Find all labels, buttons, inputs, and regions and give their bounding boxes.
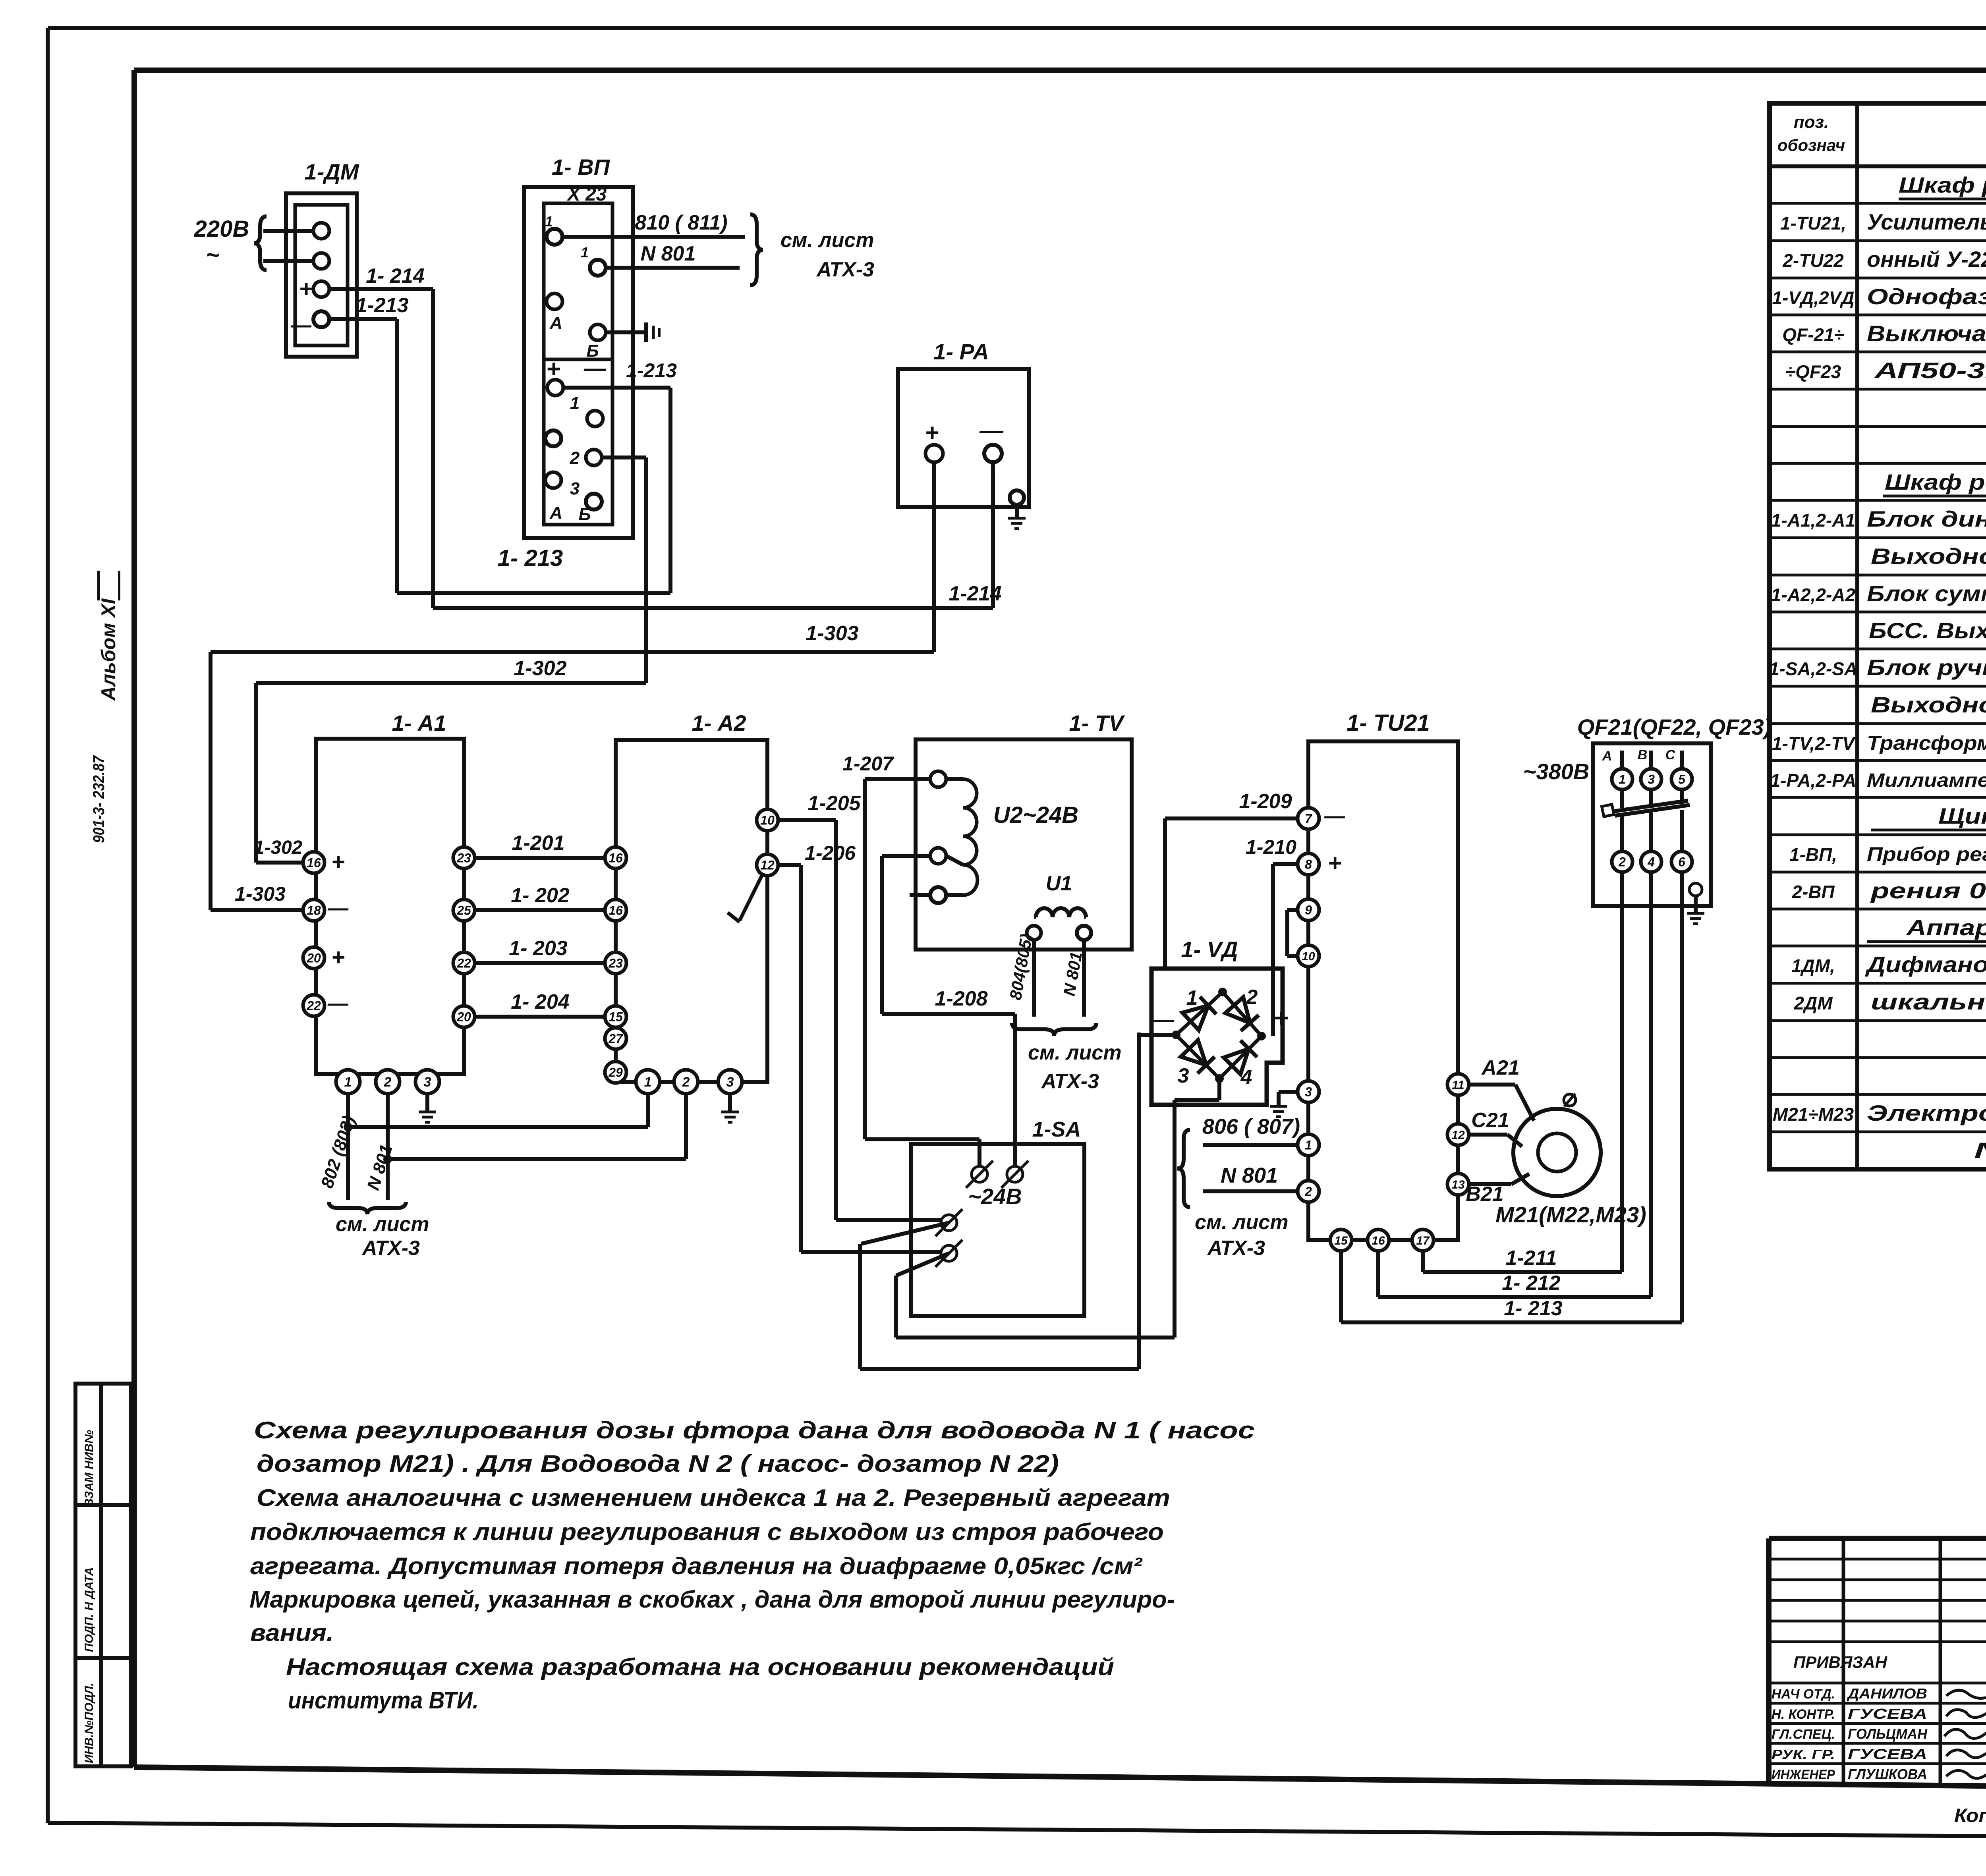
svg-text:2-ВП: 2-ВП [1791,882,1835,902]
svg-text:—: — [1151,1007,1175,1032]
svg-text:4: 4 [1647,855,1655,869]
svg-text:23: 23 [608,956,623,971]
svg-text:—: — [327,897,349,920]
svg-text:ПОДП. Н ДАТА: ПОДП. Н ДАТА [83,1567,96,1652]
svg-text:1- РА: 1- РА [933,339,989,364]
svg-text:1- 212: 1- 212 [1502,1272,1561,1295]
svg-text:Б: Б [578,505,591,524]
svg-text:ГУСЕВА: ГУСЕВА [1848,1746,1927,1762]
svg-text:1-А1,2-А1: 1-А1,2-А1 [1771,510,1855,531]
svg-text:3: 3 [1305,1085,1312,1099]
svg-text:1- ВП: 1- ВП [552,154,610,179]
svg-text:Н. КОНТР.: Н. КОНТР. [1772,1707,1835,1722]
svg-text:поз.: поз. [1794,112,1829,132]
svg-text:16: 16 [1372,1234,1385,1247]
svg-text:1-201: 1-201 [512,832,565,855]
svg-text:÷QF23: ÷QF23 [1785,361,1841,382]
svg-text:+: + [299,276,313,302]
svg-text:В: В [1638,747,1648,762]
svg-text:25: 25 [456,903,471,918]
svg-text:Блок динамической связи БДЕ: Блок динамической связи БДЕ [1867,506,1986,531]
svg-text:20: 20 [306,951,321,965]
svg-text:ПРИВЯЗАН: ПРИВЯЗАН [1793,1653,1888,1671]
svg-text:1- 202: 1- 202 [511,884,570,907]
svg-text:+: + [1327,850,1341,876]
svg-text:1-303: 1-303 [235,883,286,905]
svg-text:Шкаф регулирования фтора N1: Шкаф регулирования фтора N1 [1899,172,1986,197]
svg-text:онный У-22М: онный У-22М [1867,247,1986,272]
svg-text:ГЛ.СПЕЦ.: ГЛ.СПЕЦ. [1772,1727,1835,1742]
svg-text:1- 213: 1- 213 [1504,1297,1563,1320]
svg-text:рения 0-5мА РП- 160-09: рения 0-5мА РП- 160-09 [1870,878,1986,903]
svg-text:806 ( 807): 806 ( 807) [1202,1115,1300,1139]
svg-text:Аппаратура по месту: Аппаратура по месту [1906,915,1986,940]
svg-text:1-210: 1-210 [1246,836,1296,858]
svg-text:1: 1 [545,213,553,230]
svg-text:АТХ-3: АТХ-3 [1207,1237,1265,1260]
svg-text:1- ТV: 1- ТV [1069,710,1126,735]
svg-text:7: 7 [1305,812,1313,826]
svg-text:АП50-3МГ Iрн=6,4А ~380В: АП50-3МГ Iрн=6,4А ~380В [1874,358,1986,383]
svg-text:см. лист: см. лист [780,229,874,252]
svg-text:1- А1: 1- А1 [392,710,446,735]
svg-text:А: А [549,313,562,333]
svg-text:29: 29 [608,1065,623,1080]
svg-text:15: 15 [1334,1234,1348,1247]
svg-text:Альбом XI: Альбом XI [97,598,120,701]
svg-text:1-211: 1-211 [1505,1247,1557,1270]
svg-text:3: 3 [424,1075,431,1090]
svg-text:12: 12 [760,858,775,872]
svg-text:обознач: обознач [1777,136,1845,154]
svg-text:27: 27 [608,1032,624,1046]
svg-text:1-213: 1-213 [626,359,677,382]
svg-text:Схема аналогична с измен: Схема аналогична с изменением индекса 1 … [257,1484,1170,1511]
svg-text:1: 1 [644,1075,652,1090]
svg-text:1: 1 [1619,772,1626,787]
svg-text:вания.: вания. [250,1619,334,1646]
svg-text:12: 12 [1451,1129,1465,1142]
svg-text:АТХ-3: АТХ-3 [1041,1070,1099,1093]
svg-text:1- 203: 1- 203 [509,937,568,960]
svg-text:901-3- 232.87: 901-3- 232.87 [90,755,108,843]
svg-text:1: 1 [570,394,580,413]
svg-text:16: 16 [609,903,623,918]
svg-text:N=2,2кВт ~380В: N=2,2кВт ~380В [1974,1138,1986,1163]
svg-text:Электродвигатель 4А9024: Электродвигатель 4А9024 [1867,1100,1986,1125]
svg-text:1-ТU21,: 1-ТU21, [1780,213,1846,234]
svg-text:1-213: 1-213 [356,294,409,317]
svg-text:Копировал: Антипова: Копировал: Антипова [1954,1805,1986,1826]
svg-text:810 ( 811): 810 ( 811) [635,211,727,234]
svg-text:НАЧ ОТД.: НАЧ ОТД. [1772,1687,1835,1702]
svg-text:~380В: ~380В [1523,759,1590,784]
svg-text:23: 23 [456,851,471,865]
svg-text:2ДМ: 2ДМ [1793,993,1833,1013]
svg-text:1-206: 1-206 [805,842,856,864]
svg-text:+: + [925,419,939,446]
svg-text:1: 1 [1305,1138,1312,1152]
svg-text:U1: U1 [1046,872,1072,895]
svg-text:22: 22 [306,999,321,1013]
svg-text:Маркировка цепей, указанная: Маркировка цепей, указанная в скобках , … [249,1586,1175,1613]
svg-text:—: — [583,355,607,380]
svg-text:1-205: 1-205 [808,792,861,815]
svg-text:Выходной сигнал 0-5мА ~220В: Выходной сигнал 0-5мА ~220В [1871,544,1986,569]
svg-text:6: 6 [1678,855,1685,869]
svg-text:1-ДМ: 1-ДМ [305,159,359,184]
svg-text:1- 204: 1- 204 [511,990,570,1013]
svg-text:А21: А21 [1481,1056,1519,1079]
svg-text:2: 2 [1304,1185,1312,1199]
svg-text:QF-21÷: QF-21÷ [1782,324,1844,345]
svg-text:ГЛУШКОВА: ГЛУШКОВА [1848,1766,1927,1782]
svg-text:3: 3 [726,1075,734,1090]
svg-text:16: 16 [609,851,623,865]
svg-text:1: 1 [344,1075,352,1090]
svg-text:1- 214: 1- 214 [366,264,425,288]
svg-text:С21: С21 [1471,1109,1509,1132]
svg-text:2-ТU22: 2-ТU22 [1782,250,1844,271]
svg-text:—: — [327,992,349,1015]
svg-text:АТХ-3: АТХ-3 [361,1237,420,1260]
svg-text:М21(М22,М23): М21(М22,М23) [1495,1202,1646,1227]
svg-text:17: 17 [1416,1234,1430,1247]
svg-text:10: 10 [760,813,775,828]
svg-text:1-ВП,: 1-ВП, [1789,844,1837,865]
svg-text:2: 2 [682,1075,690,1090]
svg-text:8: 8 [1305,857,1312,872]
svg-text:13: 13 [1451,1178,1465,1191]
svg-text:16: 16 [307,856,321,870]
svg-text:БСС. Выходной сигнал 0-5мА~220: БСС. Выходной сигнал 0-5мА~220В [1869,618,1986,643]
svg-text:15: 15 [609,1010,623,1024]
svg-text:1: 1 [581,244,589,261]
svg-text:1-А2,2-А2: 1-А2,2-А2 [1771,585,1856,605]
svg-text:~24В: ~24В [968,1184,1022,1209]
svg-text:А: А [1602,749,1612,764]
svg-text:1-207: 1-207 [842,753,894,775]
svg-text:1-303: 1-303 [806,622,859,645]
svg-text:QF21(QF22, QF23): QF21(QF22, QF23) [1577,714,1772,739]
svg-text:Трансформатор однофазный ОСМ1-: Трансформатор однофазный ОСМ1-0.1 [1867,732,1986,754]
svg-text:10: 10 [1302,950,1315,963]
svg-text:Дифманометр мембранный бес-: Дифманометр мембранный бес- [1865,952,1986,977]
svg-text:Щит оператора: Щит оператора [1938,803,1986,828]
svg-text:1-РА,2-РА: 1-РА,2-РА [1770,770,1857,791]
svg-text:ГОЛЬЦМАН: ГОЛЬЦМАН [1848,1726,1928,1742]
svg-text:U2~24В: U2~24В [993,802,1078,828]
svg-text:11: 11 [1452,1079,1464,1092]
svg-text:института ВТИ.: института ВТИ. [288,1687,479,1714]
svg-text:20: 20 [456,1010,471,1024]
svg-text:—: — [290,314,312,337]
svg-text:Выключатель автоматический: Выключатель автоматический [1867,321,1986,346]
svg-text:1-ТV,2-ТV: 1-ТV,2-ТV [1772,733,1856,754]
svg-text:1- 213: 1- 213 [498,545,563,571]
svg-text:~: ~ [206,242,219,268]
svg-text:С: С [1665,747,1675,762]
svg-text:1- ТU21: 1- ТU21 [1347,710,1430,736]
svg-text:2: 2 [384,1075,392,1090]
svg-text:подключается к линии регули: подключается к линии регулирования с вых… [250,1519,1164,1545]
svg-text:1- VД: 1- VД [1181,937,1238,962]
svg-text:шкальный ~220В. ДМЭР-М: шкальный ~220В. ДМЭР-М [1871,989,1986,1014]
svg-text:2: 2 [1618,855,1626,869]
svg-text:ИНЖЕНЕР: ИНЖЕНЕР [1772,1767,1835,1782]
svg-text:Блок суммирования и сигнализац: Блок суммирования и сигнализации [1867,581,1986,606]
svg-text:ИНВ.№ПОДЛ.: ИНВ.№ПОДЛ. [83,1683,96,1763]
svg-text:Прибор регистрирующий, предел: Прибор регистрирующий, предел изме- [1867,843,1986,865]
svg-text:+: + [1273,1004,1288,1032]
svg-text:Блок ручного управления БРУ-2: Блок ручного управления БРУ-22 [1867,655,1986,680]
svg-text:1-302: 1-302 [254,837,303,858]
svg-text:РУК. ГР.: РУК. ГР. [1772,1747,1835,1762]
svg-text:9: 9 [1305,903,1312,917]
svg-text:22: 22 [456,956,471,971]
svg-text:А: А [549,503,562,523]
svg-text:дозатор М21) . Для Водов: дозатор М21) . Для Водовода N 2 ( насос-… [257,1450,1059,1477]
svg-text:+: + [331,849,345,875]
svg-text:ВЗАМ НИВ№: ВЗАМ НИВ№ [83,1430,96,1507]
svg-text:3: 3 [1648,772,1655,787]
svg-text:Миллиамперметр М381.Вых.сигнал: Миллиамперметр М381.Вых.сигнал 0-5мА [1867,770,1986,791]
svg-text:1: 1 [1186,986,1198,1009]
svg-text:Однофазный мост КЦ-402F: Однофазный мост КЦ-402F [1867,284,1986,309]
svg-text:1-SА,2-SА: 1-SА,2-SА [1769,658,1857,679]
svg-text:Настоящая схема разработан: Настоящая схема разработана на основании… [286,1654,1114,1680]
svg-text:М21÷М23: М21÷М23 [1773,1104,1854,1125]
svg-text:ГУСЕВА: ГУСЕВА [1848,1706,1927,1722]
svg-text:1- А2: 1- А2 [692,710,746,735]
svg-text:1-VД,2VД: 1-VД,2VД [1772,288,1854,308]
svg-text:X 23: X 23 [566,184,607,205]
svg-text:2: 2 [570,448,580,468]
svg-text:Шкаф регулирования фтора N 2: Шкаф регулирования фтора N 2 [1885,469,1986,494]
svg-text:см. лист: см. лист [1028,1041,1122,1064]
svg-text:1-209: 1-209 [1239,790,1292,813]
svg-text:1-SА: 1-SА [1032,1117,1081,1141]
svg-text:1-302: 1-302 [514,657,567,680]
svg-text:+: + [331,944,345,970]
svg-text:220В: 220В [194,216,249,242]
svg-text:ДАНИЛОВ: ДАНИЛОВ [1847,1685,1927,1702]
svg-text:18: 18 [307,903,321,918]
svg-text:Усилитель тиристорный трехпо: Усилитель тиристорный трехпозици- [1867,209,1986,234]
svg-text:—: — [979,417,1004,444]
svg-text:5: 5 [1678,772,1686,787]
svg-text:Выходной сигнал 0-5мА ~24В: Выходной сигнал 0-5мА ~24В [1871,692,1986,717]
svg-text:N 801: N 801 [1221,1164,1278,1187]
svg-text:см. лист: см. лист [336,1213,429,1236]
svg-text:1-208: 1-208 [935,987,988,1010]
svg-text:N 801: N 801 [641,242,696,265]
svg-text:4: 4 [1240,1066,1252,1089]
svg-text:3: 3 [570,479,580,498]
svg-text:—: — [1324,805,1345,828]
svg-text:Схема регулирования дозы: Схема регулирования дозы фтора дана для … [254,1417,1255,1444]
svg-text:1ДМ,: 1ДМ, [1791,955,1835,976]
svg-text:см. лист: см. лист [1195,1211,1289,1234]
svg-text:АТХ-3: АТХ-3 [816,258,874,281]
svg-text:3: 3 [1178,1064,1189,1087]
svg-text:2: 2 [1246,986,1258,1009]
svg-text:агрегата. Допустимая потеря: агрегата. Допустимая потеря давления на … [250,1553,1143,1579]
